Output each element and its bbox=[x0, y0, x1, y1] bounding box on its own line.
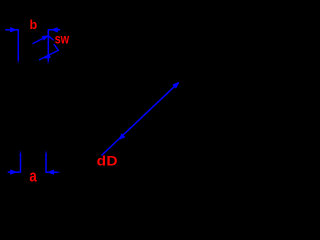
wire: fading right end of a right dimension line bbox=[56, 171, 61, 173]
wire: fading top of a right extension bbox=[45, 150, 47, 155]
wire: dimension a left line with extension bbox=[8, 154, 57, 172]
svg-text:b: b bbox=[30, 17, 38, 32]
svg-text:sw: sw bbox=[55, 31, 70, 47]
node: arrowhead of b dimension, left bbox=[11, 28, 16, 32]
node: arrowhead of sw lower leader bbox=[45, 54, 50, 58]
svg-text:a: a bbox=[29, 167, 37, 186]
wire: dimension a right line with extension bbox=[46, 154, 57, 172]
wire: diameter dD dimension line bbox=[102, 83, 178, 155]
svg-text:dD: dD bbox=[97, 154, 118, 169]
wire: fading tail of left extension line bbox=[18, 59, 20, 65]
wire: sw lower bent leader bbox=[40, 45, 59, 60]
node: arrowhead of b dimension, right bbox=[52, 28, 57, 32]
node: arrowhead of sw upper leader bbox=[42, 36, 47, 40]
node: arrowhead of dD at top right bbox=[173, 83, 178, 88]
node: arrowhead of a dimension, left bbox=[11, 170, 16, 174]
wire: sw upper leader diagonal bbox=[33, 36, 47, 43]
wire: sw short connector from label bbox=[49, 36, 53, 40]
wire: fading tail of right extension line bbox=[48, 60, 50, 65]
wire: dimension b left line with extension bbox=[6, 30, 60, 61]
wire: dimension b right line with extension bbox=[48, 30, 59, 61]
node: arrowhead of dD at lower circle edge bbox=[119, 134, 124, 139]
node: arrowhead of a dimension, right bbox=[49, 170, 54, 174]
wire: fading top of a left extension bbox=[20, 150, 22, 155]
